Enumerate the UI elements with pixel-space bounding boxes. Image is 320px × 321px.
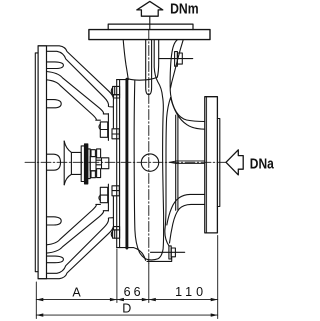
strut1 lower inner line	[47, 218, 114, 274]
casing top-right bolt washer	[175, 52, 178, 67]
flange bottom edge into strut1 outer	[38, 197, 113, 279]
casing bottom-right bolt centerline	[151, 251, 185, 253]
svg-text:A: A	[72, 286, 81, 300]
svg-text:D: D	[122, 301, 131, 315]
center plug circle	[141, 154, 158, 171]
motor flange main plate	[38, 46, 46, 279]
bell rim	[63, 141, 65, 185]
volute lower inner curve	[165, 98, 171, 246]
discharge neck left curve	[123, 40, 128, 79]
coupling disc 2	[88, 149, 90, 179]
lantern flange face line	[119, 80, 121, 248]
motor flange outer plate	[35, 53, 38, 272]
strut2 lower outer line	[47, 211, 109, 253]
stub shaft	[96, 160, 102, 165]
DNm stem	[149, 16, 151, 29]
svg-text:DNm: DNm	[170, 2, 199, 18]
arrowhead dim D left	[36, 313, 43, 316]
lantern bolt B4	[111, 227, 119, 239]
strut1 upper inner line	[47, 51, 114, 107]
discharge flange raised face	[108, 24, 193, 29]
casing foot bottom	[147, 257, 172, 261]
extension line center	[148, 264, 150, 303]
arrowhead dim 66 left	[117, 298, 124, 301]
casing left edge	[134, 81, 148, 260]
arrowhead dim D right	[211, 313, 218, 316]
strut2 tip plate vertical	[107, 114, 109, 141]
lantern stud B3 nut	[99, 186, 119, 203]
suction arrow DNa	[226, 150, 243, 175]
casing top-right bolt head	[177, 53, 182, 64]
rib upper 1	[47, 62, 64, 69]
discharge neck right wall	[154, 40, 162, 97]
casing cover heavy line	[125, 79, 128, 248]
strut2 upper inner line	[47, 80, 101, 120]
discharge pipe left wall	[146, 40, 152, 95]
arrowhead dim A left	[36, 298, 43, 301]
arrowhead dim A right	[110, 298, 117, 301]
vertical centerline	[148, 30, 150, 264]
arrowhead dim 66 right	[142, 298, 149, 301]
coupling bolt top	[91, 150, 95, 157]
casing right upper to neck sweep	[170, 86, 205, 122]
casing bottom-right bolt washer	[169, 246, 171, 259]
coupling disc 1	[81, 146, 84, 182]
casing right edge	[163, 97, 164, 231]
suction pointed element	[170, 161, 205, 164]
rib lower 2	[47, 256, 64, 263]
bell flare top	[64, 141, 71, 152]
casing top-right bolt centerline	[159, 58, 193, 60]
coupling block	[90, 157, 96, 171]
suction flange raised face	[217, 119, 219, 207]
lantern flange front line	[116, 80, 118, 248]
suction flange inner face line	[206, 97, 208, 233]
discharge flange	[89, 30, 210, 40]
lantern stud B2 nut	[99, 122, 119, 139]
clamp top	[97, 149, 101, 158]
suction flange	[205, 97, 218, 233]
bell flare bottom	[64, 174, 71, 184]
shaft end block	[102, 158, 109, 169]
lantern bolt B1	[111, 86, 119, 98]
suction cover plate verticals	[176, 115, 178, 210]
rib upper 2	[47, 100, 62, 108]
extension line lantern	[116, 249, 118, 303]
flange top edge into strut1 outer	[38, 46, 113, 128]
casing right neck second line	[171, 40, 184, 88]
discharge arrow DNm	[137, 1, 163, 16]
casing bottom-right bolt head	[171, 248, 175, 257]
horizontal centerline	[25, 161, 226, 163]
svg-text:66: 66	[124, 285, 141, 299]
arrowhead dim 110 right	[211, 298, 218, 301]
dimension line row2	[36, 314, 217, 316]
dimension line row1	[36, 299, 217, 301]
extension line left	[35, 282, 37, 319]
clamp bottom	[97, 169, 101, 178]
casing top shoulder	[128, 40, 159, 80]
lantern top edge	[117, 79, 129, 81]
shaft bump	[47, 154, 61, 170]
coupling black disc	[85, 144, 88, 184]
arrowhead dim 110 left	[149, 298, 156, 301]
suction neck inner top	[171, 98, 205, 130]
strut2 upper outer line	[47, 72, 109, 114]
suction neck inner bottom	[167, 194, 205, 225]
coupling hub	[71, 152, 81, 174]
svg-text:DNa: DNa	[250, 156, 275, 172]
strut2 lower tip plate vertical	[107, 184, 109, 211]
lantern bottom edge	[117, 248, 146, 261]
strut2 lower inner line	[47, 204, 101, 244]
casing right neck from flange	[170, 40, 177, 86]
casing bottom edge	[148, 230, 163, 260]
suction neck outer bottom	[170, 204, 205, 243]
svg-text:110: 110	[175, 285, 203, 299]
rib lower 1	[47, 217, 62, 225]
extension line right	[217, 236, 219, 319]
coupling bolt bottom	[91, 171, 95, 178]
